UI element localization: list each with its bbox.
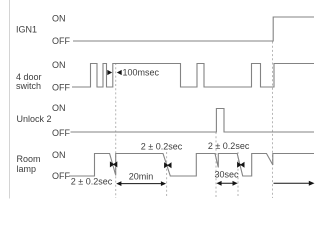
svg-text:30sec: 30sec bbox=[214, 169, 239, 179]
svg-text:100msec: 100msec bbox=[123, 67, 160, 77]
svg-text:20min: 20min bbox=[129, 172, 154, 182]
svg-text:ON: ON bbox=[52, 150, 66, 160]
svg-text:2 ± 0.2sec: 2 ± 0.2sec bbox=[208, 141, 250, 151]
svg-text:OFF: OFF bbox=[52, 36, 70, 46]
svg-text:IGN1: IGN1 bbox=[16, 25, 37, 35]
svg-text:switch: switch bbox=[16, 81, 41, 91]
svg-text:2 ± 0.2sec: 2 ± 0.2sec bbox=[71, 176, 113, 186]
svg-text:lamp: lamp bbox=[17, 164, 37, 174]
svg-text:OFF: OFF bbox=[52, 171, 70, 181]
svg-text:ON: ON bbox=[52, 60, 66, 70]
svg-text:2 ± 0.2sec: 2 ± 0.2sec bbox=[141, 141, 183, 151]
svg-text:ON: ON bbox=[52, 14, 66, 24]
svg-text:Unlock 2: Unlock 2 bbox=[17, 114, 52, 124]
svg-text:Room: Room bbox=[17, 154, 41, 164]
svg-text:OFF: OFF bbox=[52, 83, 70, 93]
svg-text:ON: ON bbox=[52, 103, 66, 113]
svg-text:OFF: OFF bbox=[52, 128, 70, 138]
